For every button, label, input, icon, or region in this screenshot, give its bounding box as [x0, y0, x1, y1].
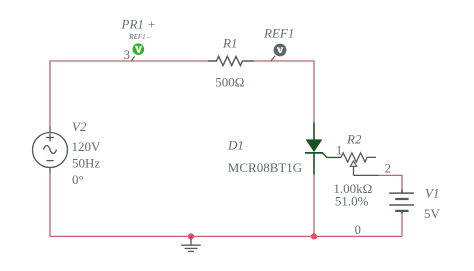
wire: SCR cathode down to bottom — [313, 175, 315, 237]
wire: pot wiper to battery top (node 2) — [378, 175, 402, 190]
svg-text:REF1 -: REF1 - — [128, 33, 150, 41]
svg-text:R1: R1 — [222, 35, 237, 50]
svg-text:0: 0 — [355, 223, 361, 237]
battery V1 — [389, 190, 414, 214]
wire: battery bottom to bottom rail — [401, 212, 403, 236]
junction dot at ground node — [188, 233, 194, 239]
svg-text:3: 3 — [124, 48, 130, 62]
wire: left lower V2 to bottom — [50, 173, 402, 236]
wire: top left segment (node 3) — [50, 61, 208, 126]
svg-text:V2: V2 — [72, 119, 87, 134]
svg-text:2: 2 — [385, 162, 391, 176]
voltage source V2 (AC) — [33, 126, 68, 173]
svg-text:5V: 5V — [424, 206, 441, 221]
probe PR1 (green voltage probe) — [131, 43, 144, 61]
potentiometer R2 — [341, 153, 379, 176]
svg-text:0°: 0° — [72, 172, 84, 187]
resistor R1 — [208, 56, 254, 65]
svg-text:REF1: REF1 — [263, 26, 294, 41]
junction dot at SCR cathode / bottom rail — [311, 233, 317, 239]
thyristor D1 (SCR) — [305, 122, 341, 174]
svg-text:51.0%: 51.0% — [335, 193, 369, 208]
svg-text:PR1 +: PR1 + — [121, 17, 156, 32]
svg-text:R2: R2 — [346, 132, 362, 147]
svg-text:D1: D1 — [227, 138, 244, 153]
probe REF1 (gray voltage probe) — [271, 44, 287, 61]
svg-text:120V: 120V — [72, 139, 102, 154]
ground — [181, 236, 201, 251]
wire: top right segment R1 to SCR anode — [254, 61, 314, 122]
svg-text:500Ω: 500Ω — [215, 74, 244, 89]
svg-text:MCR08BT1G: MCR08BT1G — [228, 160, 302, 175]
svg-text:50Hz: 50Hz — [72, 156, 100, 171]
svg-text:V1: V1 — [425, 186, 439, 201]
svg-text:1: 1 — [336, 144, 342, 158]
